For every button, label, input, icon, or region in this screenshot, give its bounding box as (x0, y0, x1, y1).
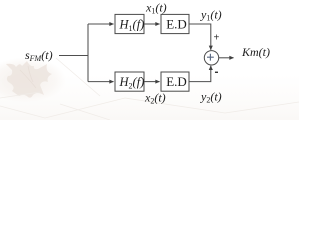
svg-text:y1(t): y1(t) (200, 8, 222, 23)
svg-text:sFM(t): sFM(t) (25, 48, 53, 63)
svg-text:x2(t): x2(t) (144, 91, 166, 106)
svg-text:x1(t): x1(t) (145, 1, 167, 16)
svg-text:E.D: E.D (166, 17, 187, 32)
svg-text:E.D: E.D (166, 74, 187, 89)
svg-text:Km(t): Km(t) (241, 45, 270, 59)
svg-text:-: - (215, 65, 219, 79)
svg-text:+: + (214, 33, 220, 44)
svg-text:y2(t): y2(t) (200, 90, 222, 105)
